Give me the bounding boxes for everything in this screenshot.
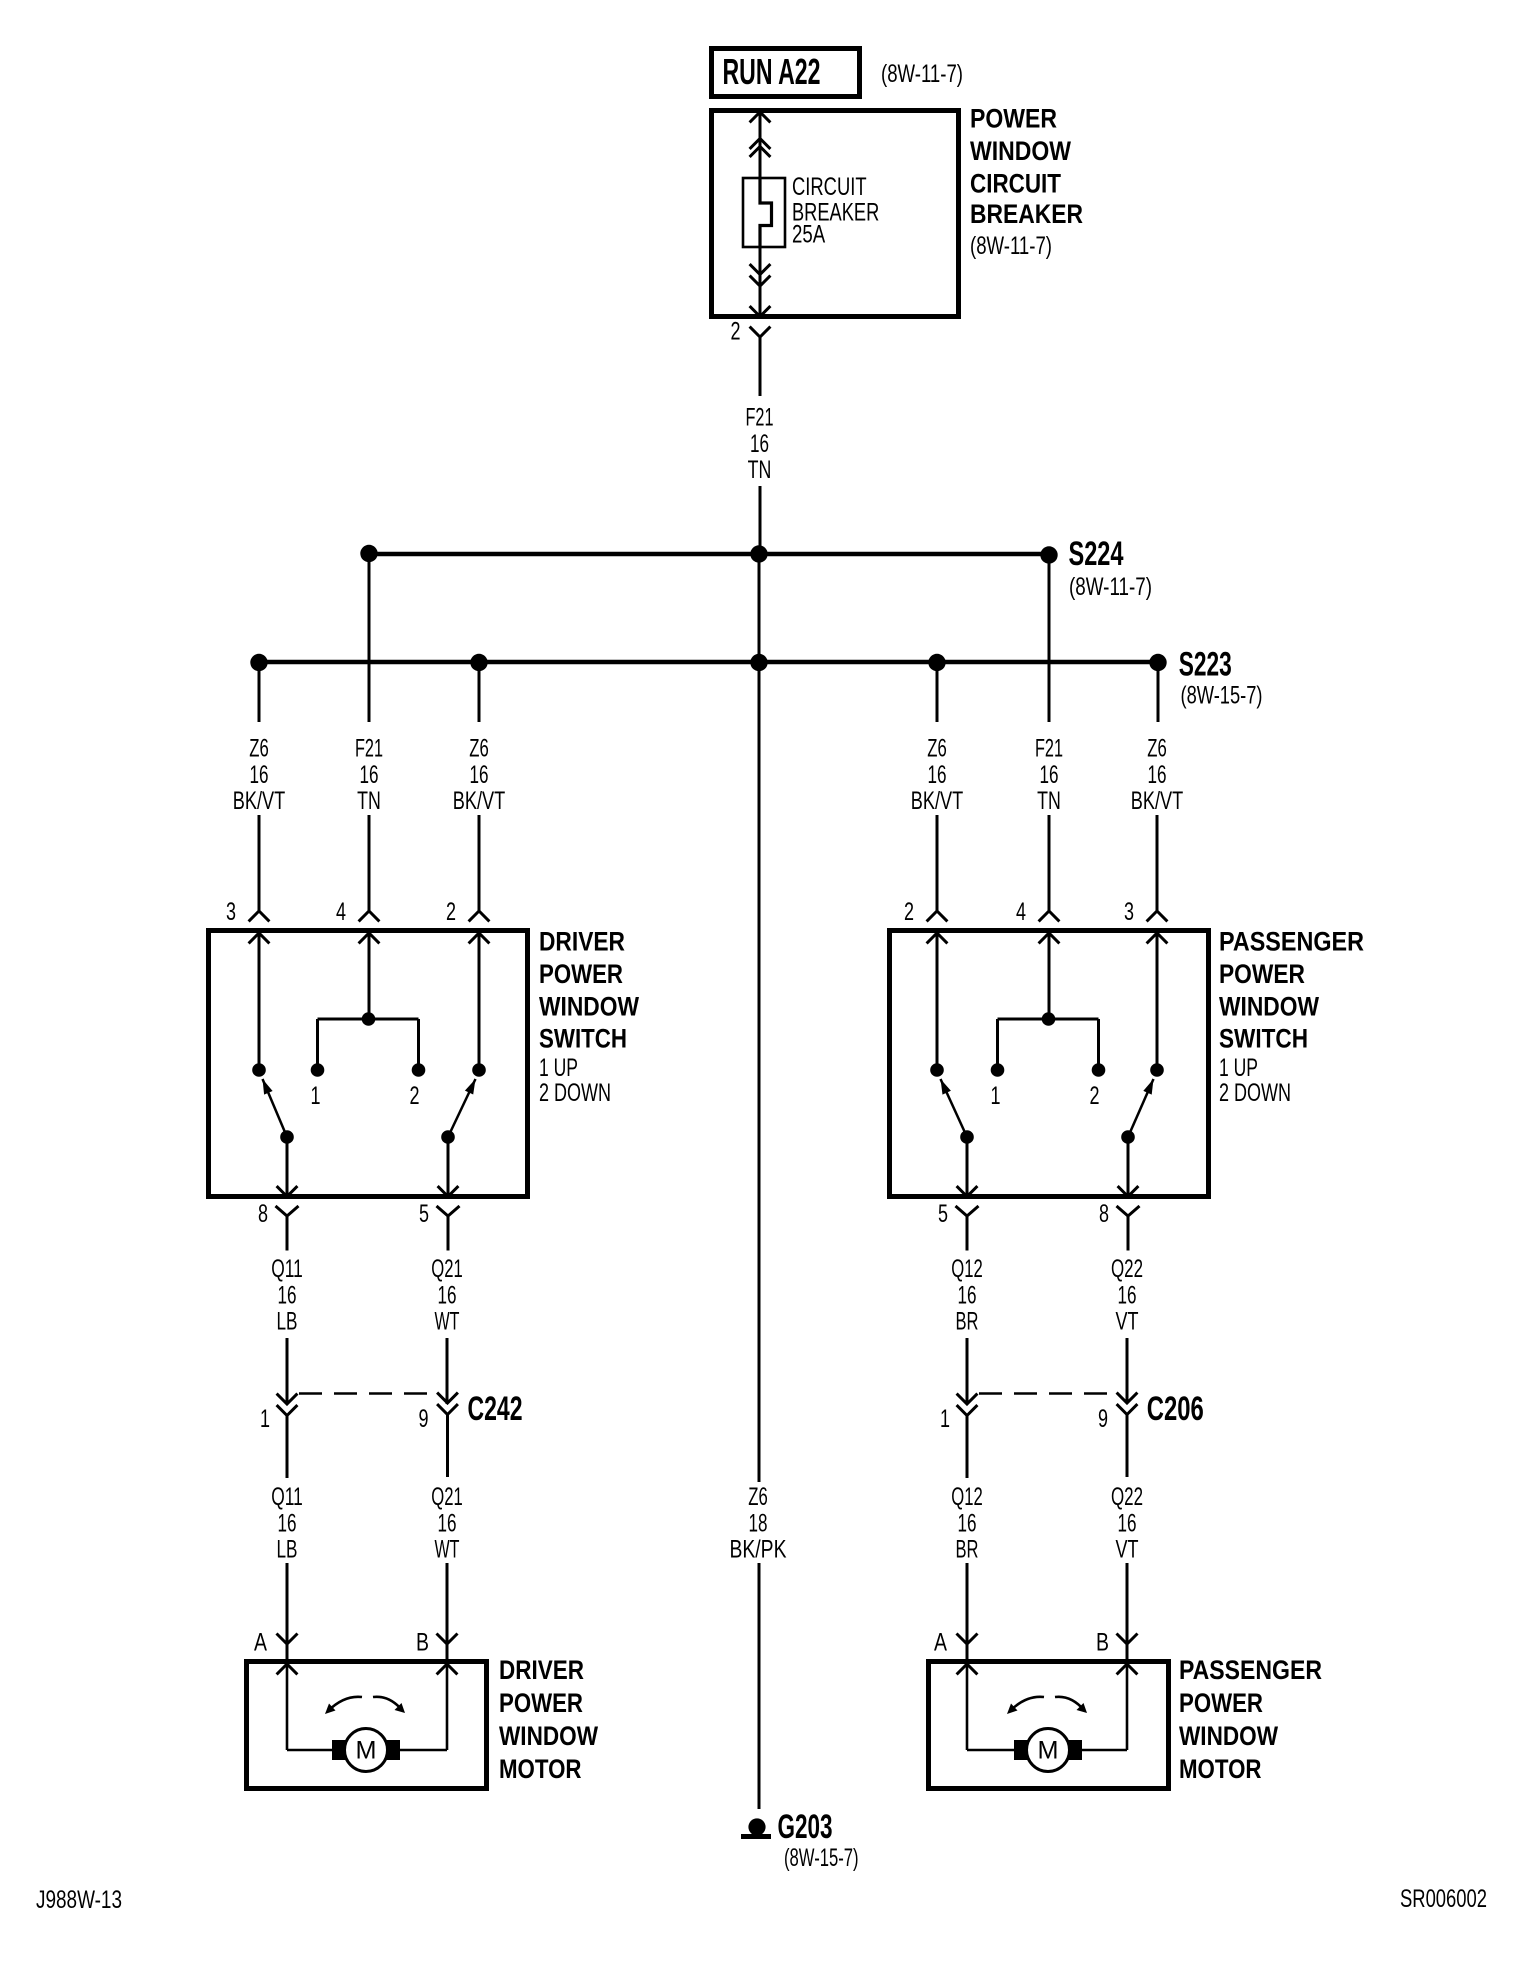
wire: S224 center to S223 center: [758, 554, 761, 662]
svg-text:CIRCUIT: CIRCUIT: [792, 173, 867, 201]
motor name text: [1179, 1655, 1322, 1784]
wire Z6 label (passenger pin 2 column): [911, 735, 964, 816]
svg-text:16: 16: [438, 1281, 457, 1309]
svg-text:16: 16: [1118, 1281, 1137, 1309]
splice bus S223: [259, 660, 1158, 665]
motor rotation arrows: [325, 1697, 405, 1714]
wire Q11 label (lower): [271, 1483, 303, 1564]
wire Q22 label (lower): [1111, 1483, 1143, 1564]
wire + pin B connector (passenger motor): [1096, 1563, 1138, 1661]
wire into switch at x=1049: [1039, 815, 1060, 921]
svg-text:PASSENGER: PASSENGER: [1179, 1655, 1322, 1685]
svg-text:TN: TN: [748, 456, 772, 484]
svg-text:BREAKER: BREAKER: [970, 199, 1083, 229]
drawing number SR006002: [1400, 1885, 1487, 1913]
svg-text:(8W-15-7): (8W-15-7): [1181, 682, 1263, 710]
svg-text:4: 4: [336, 898, 346, 926]
svg-text:F21: F21: [355, 735, 383, 763]
wire: B to motor: [400, 1664, 447, 1750]
wire inside: left pin to contact: [936, 933, 939, 1070]
svg-text:9: 9: [419, 1405, 429, 1433]
wire inside: center pin to junction: [368, 933, 371, 1019]
svg-text:2: 2: [904, 898, 914, 926]
svg-text:3: 3: [1124, 898, 1134, 926]
svg-text:16: 16: [1148, 761, 1167, 789]
switch box outline: [209, 931, 528, 1197]
driver switch pin 5 connector: [419, 1200, 460, 1251]
driver switch pin 8 connector: [258, 1200, 299, 1251]
svg-text:M: M: [1038, 1737, 1059, 1765]
wire + pin A connector (driver motor): [254, 1563, 298, 1661]
switch box outline: [890, 931, 1209, 1197]
junction dot S224 center: [750, 545, 767, 562]
wire into switch at x=259: [249, 815, 270, 921]
wire: S223 center down (Z6 to ground), upper part: [758, 662, 761, 1482]
svg-text:WINDOW: WINDOW: [499, 1721, 598, 1751]
svg-text:1 UP: 1 UP: [1219, 1054, 1258, 1082]
svg-text:BK/VT: BK/VT: [1131, 787, 1184, 815]
ground G203 symbol: [741, 1818, 771, 1836]
svg-text:POWER: POWER: [499, 1688, 583, 1718]
driver switch pin 2: [446, 898, 489, 943]
svg-text:16: 16: [438, 1509, 457, 1537]
svg-text:(8W-11-7): (8W-11-7): [970, 232, 1052, 260]
svg-text:BK/VT: BK/VT: [233, 787, 286, 815]
contact labels 1 / 2: [311, 1082, 420, 1110]
svg-text:25A: 25A: [792, 221, 825, 249]
svg-text:9: 9: [1098, 1405, 1108, 1433]
switch arm left (wiper): [263, 1079, 288, 1137]
wire: S224 to passenger switch pin 4 (upper): [1048, 555, 1051, 722]
switch common bar: [318, 1019, 419, 1070]
wire: B to motor: [1082, 1664, 1127, 1750]
svg-text:C206: C206: [1147, 1390, 1204, 1428]
wire: right wiper to box bottom: [1118, 1137, 1139, 1197]
passenger switch pin 2: [904, 898, 947, 943]
svg-text:2 DOWN: 2 DOWN: [1219, 1079, 1291, 1107]
svg-text:Q12: Q12: [951, 1255, 983, 1283]
svg-text:DRIVER: DRIVER: [539, 927, 625, 957]
wire: F21 down to S224 splice: [759, 486, 762, 554]
svg-text:Z6: Z6: [249, 735, 269, 763]
junction dot S224 left: [360, 545, 377, 562]
node RUN A22 feed box: [712, 49, 860, 97]
svg-text:Q11: Q11: [271, 1483, 303, 1511]
wire into switch at x=479: [469, 815, 490, 921]
svg-text:Z6: Z6: [469, 735, 489, 763]
svg-text:2: 2: [410, 1082, 420, 1110]
contact dot 1: [991, 1063, 1005, 1077]
svg-text:SWITCH: SWITCH: [1219, 1024, 1308, 1054]
svg-text:WINDOW: WINDOW: [539, 992, 639, 1022]
wiper dot right: [441, 1130, 455, 1144]
svg-text:B: B: [1096, 1629, 1109, 1657]
svg-text:5: 5: [938, 1200, 948, 1228]
junction dot center: [362, 1012, 376, 1026]
wire Z6 18 BK/PK label: [730, 1483, 787, 1564]
svg-text:16: 16: [750, 430, 769, 458]
passenger switch pin 8 connector: [1099, 1200, 1140, 1251]
svg-text:WT: WT: [435, 1308, 460, 1336]
svg-text:G203: G203: [778, 1808, 833, 1846]
pin arrow B inside motor box: [1117, 1664, 1138, 1674]
wire inside: right pin to contact: [1156, 933, 1159, 1070]
svg-text:2: 2: [446, 898, 456, 926]
svg-text:WT: WT: [435, 1536, 460, 1564]
contact dot left outer: [930, 1063, 944, 1077]
svg-text:8: 8: [1099, 1200, 1109, 1228]
connector C242 right half: [437, 1393, 458, 1477]
svg-text:PASSENGER: PASSENGER: [1219, 927, 1364, 957]
junction dot S223 center: [750, 654, 767, 671]
circuit breaker CB element 25A: [743, 178, 785, 247]
svg-text:WINDOW: WINDOW: [970, 136, 1071, 166]
svg-text:8: 8: [258, 1200, 268, 1228]
wire F21 label (passenger pin 4 column): [1035, 735, 1063, 816]
svg-text:Z6: Z6: [927, 735, 947, 763]
wire: breaker input from RUN A22: [750, 110, 771, 178]
wire Q22 label (upper): [1111, 1255, 1143, 1336]
svg-text:2 DOWN: 2 DOWN: [539, 1079, 611, 1107]
RUN A22 reference (8W-11-7): [881, 60, 963, 88]
wire Q21 label (lower): [431, 1483, 463, 1564]
svg-text:16: 16: [958, 1281, 977, 1309]
svg-text:Q21: Q21: [431, 1483, 463, 1511]
svg-text:16: 16: [1040, 761, 1059, 789]
passenger switch pin 4: [1016, 898, 1059, 943]
contact dot left outer: [252, 1063, 266, 1077]
switch name text: [1219, 927, 1364, 1107]
wire Z6 label (driver pin 2 column): [453, 735, 506, 816]
pin arrow A inside motor box: [957, 1664, 978, 1674]
svg-text:SR006002: SR006002: [1400, 1885, 1487, 1913]
svg-text:RUN A22: RUN A22: [723, 51, 821, 92]
switch common bar: [998, 1019, 1099, 1070]
switch arm right (wiper): [448, 1079, 476, 1137]
driver switch pin 3: [226, 898, 269, 943]
svg-text:MOTOR: MOTOR: [499, 1754, 582, 1784]
wire Q21 label (upper): [431, 1255, 463, 1336]
svg-text:16: 16: [250, 761, 269, 789]
connector C242 dashed tie: [299, 1392, 436, 1395]
wire inside: center pin to junction: [1048, 933, 1051, 1019]
wire inside: left pin to contact: [258, 933, 261, 1070]
svg-text:POWER: POWER: [970, 103, 1057, 133]
power window circuit breaker box outline: [712, 111, 959, 317]
svg-text:1 UP: 1 UP: [539, 1054, 578, 1082]
svg-text:1: 1: [991, 1082, 1001, 1110]
wire Q12 label (upper): [951, 1255, 983, 1336]
svg-text:BR: BR: [956, 1308, 979, 1336]
pin arrow B inside motor box: [437, 1664, 458, 1674]
connector C206 pin labels: [940, 1405, 1108, 1433]
svg-text:Q22: Q22: [1111, 1483, 1143, 1511]
svg-text:1: 1: [311, 1082, 321, 1110]
svg-text:TN: TN: [357, 787, 381, 815]
wire stub: S223 to driver Z6 left: [258, 662, 261, 722]
wire: S224 to driver switch pin 4 (upper): [368, 554, 371, 722]
svg-text:16: 16: [470, 761, 489, 789]
wire: A to motor: [287, 1664, 332, 1750]
motor rotation arrows: [1007, 1697, 1087, 1714]
passenger switch pin 3: [1124, 898, 1167, 943]
motor M symbol: [332, 1729, 400, 1772]
svg-text:B: B: [416, 1629, 429, 1657]
wire to C242 at x=287: [286, 1338, 289, 1404]
svg-text:16: 16: [958, 1509, 977, 1537]
connector C242 pin labels: [260, 1405, 429, 1433]
wire: left wiper to box bottom: [277, 1137, 298, 1197]
svg-text:F21: F21: [1035, 735, 1063, 763]
wire to C242 at x=447: [446, 1338, 449, 1404]
svg-text:POWER: POWER: [539, 959, 623, 989]
sheet number J988W-13: [36, 1886, 122, 1914]
svg-text:F21: F21: [746, 404, 774, 432]
contact dot 1: [311, 1063, 325, 1077]
svg-text:CIRCUIT: CIRCUIT: [970, 168, 1061, 198]
svg-text:A: A: [934, 1629, 947, 1657]
wire Q11 label (upper): [271, 1255, 303, 1336]
switch arm left (wiper): [941, 1079, 968, 1137]
connector chevrons (in-box splice, down): [750, 264, 771, 286]
wire to C206 at x=1127: [1126, 1338, 1129, 1403]
driver switch pin 4: [336, 898, 379, 943]
wiper dot left: [960, 1130, 974, 1144]
splice label S223: [1179, 646, 1263, 710]
svg-text:VT: VT: [1116, 1308, 1139, 1336]
svg-text:S223: S223: [1179, 646, 1232, 684]
svg-text:BK/VT: BK/VT: [453, 787, 506, 815]
connector chevrons (in-box splice, up): [750, 139, 771, 157]
wire + pin A connector (passenger motor): [934, 1563, 978, 1661]
junction dot S224 right (S224): [1040, 546, 1057, 563]
wire into switch at x=369: [359, 815, 380, 921]
switch name text: [539, 927, 639, 1107]
svg-text:Z6: Z6: [1147, 735, 1167, 763]
connector C242 left half: [277, 1394, 298, 1478]
svg-text:LB: LB: [277, 1308, 298, 1336]
svg-text:Q22: Q22: [1111, 1255, 1143, 1283]
svg-text:16: 16: [1118, 1509, 1137, 1537]
contact dot 2: [1092, 1063, 1106, 1077]
svg-text:C242: C242: [468, 1390, 523, 1428]
svg-text:1: 1: [940, 1405, 950, 1433]
wire inside: right pin to contact: [478, 933, 481, 1070]
svg-text:MOTOR: MOTOR: [1179, 1754, 1262, 1784]
circuit breaker value label CIRCUIT BREAKER 25A: [792, 173, 879, 249]
motor name text: [499, 1655, 598, 1784]
svg-text:WINDOW: WINDOW: [1179, 1721, 1278, 1751]
svg-text:4: 4: [1016, 898, 1026, 926]
svg-text:16: 16: [360, 761, 379, 789]
svg-text:5: 5: [419, 1200, 429, 1228]
svg-text:POWER: POWER: [1179, 1688, 1263, 1718]
svg-text:J988W-13: J988W-13: [36, 1886, 122, 1914]
contact dot right outer: [472, 1063, 486, 1077]
svg-text:(8W-11-7): (8W-11-7): [881, 60, 963, 88]
svg-text:(8W-15-7): (8W-15-7): [784, 1844, 859, 1872]
svg-text:(8W-11-7): (8W-11-7): [1069, 573, 1152, 601]
svg-text:M: M: [356, 1737, 377, 1765]
pin arrow at breaker box bottom: [750, 306, 771, 316]
ground label G203: [778, 1808, 859, 1872]
svg-text:2: 2: [731, 318, 741, 346]
svg-text:VT: VT: [1116, 1536, 1139, 1564]
wire stub: S223 to passenger Z6 left: [936, 662, 939, 722]
wire Z6 label (passenger pin 3 column): [1131, 735, 1184, 816]
pin arrow A inside motor box: [277, 1664, 298, 1674]
svg-text:BR: BR: [956, 1536, 979, 1564]
svg-text:A: A: [254, 1629, 267, 1657]
svg-text:Q11: Q11: [271, 1255, 303, 1283]
svg-text:16: 16: [278, 1281, 297, 1309]
svg-text:BK/VT: BK/VT: [911, 787, 964, 815]
junction dot S223 mid left: [470, 654, 487, 671]
wire into switch at x=937: [927, 815, 948, 921]
contact dot 2: [412, 1063, 426, 1077]
svg-text:1: 1: [260, 1405, 270, 1433]
wire Q12 label (lower): [951, 1483, 983, 1564]
wire: right wiper to box bottom: [438, 1137, 459, 1197]
wire: breaker output to pin 2: [759, 247, 762, 314]
svg-text:16: 16: [278, 1509, 297, 1537]
svg-text:TN: TN: [1037, 787, 1061, 815]
svg-text:BK/PK: BK/PK: [730, 1536, 787, 1564]
connector C206 name: [1147, 1390, 1204, 1428]
splice label S224: [1069, 535, 1153, 601]
wire stub: S223 to driver Z6 right: [478, 662, 481, 722]
junction dot S223 far left: [250, 654, 267, 671]
wiper dot right: [1121, 1130, 1135, 1144]
svg-text:LB: LB: [277, 1536, 298, 1564]
wire: Z6 label to ground G203: [758, 1563, 761, 1809]
connector C206 left half: [957, 1394, 978, 1478]
svg-text:2: 2: [1090, 1082, 1100, 1110]
svg-text:WINDOW: WINDOW: [1219, 992, 1319, 1022]
passenger switch pin 5 connector: [938, 1200, 979, 1251]
wire stub: S223 to passenger Z6 right: [1157, 662, 1160, 722]
svg-text:Z6: Z6: [748, 1483, 768, 1511]
junction dot S223 mid right: [928, 654, 945, 671]
wire: A to motor: [967, 1664, 1014, 1750]
splice bus S224: [369, 552, 1049, 557]
wire F21 label (driver pin 4 column): [355, 735, 383, 816]
wire + pin B connector (driver motor): [416, 1563, 458, 1661]
contact labels 1 / 2: [991, 1082, 1100, 1110]
contact dot right outer: [1150, 1063, 1164, 1077]
pin 2 connector of breaker: [731, 318, 771, 397]
svg-text:SWITCH: SWITCH: [539, 1024, 627, 1054]
svg-text:3: 3: [226, 898, 236, 926]
connector C206 dashed tie: [979, 1392, 1115, 1395]
motor box outline: [247, 1662, 487, 1789]
motor M symbol: [1014, 1729, 1082, 1772]
wire F21 label (breaker to S224): [746, 404, 774, 485]
svg-text:18: 18: [749, 1509, 768, 1537]
svg-text:S224: S224: [1069, 535, 1124, 573]
connector C242 name: [468, 1390, 523, 1428]
svg-text:POWER: POWER: [1219, 959, 1305, 989]
junction dot S223 far right (S223): [1149, 654, 1166, 671]
motor box outline: [929, 1662, 1169, 1789]
svg-text:Q12: Q12: [951, 1483, 983, 1511]
wire into switch at x=1157: [1147, 815, 1168, 921]
circuit breaker label text: [970, 103, 1083, 260]
svg-text:Q21: Q21: [431, 1255, 463, 1283]
svg-text:16: 16: [928, 761, 947, 789]
junction dot center: [1042, 1012, 1056, 1026]
wire to C206 at x=967: [966, 1338, 969, 1403]
connector C206 right half: [1117, 1393, 1138, 1477]
switch arm right (wiper): [1128, 1079, 1154, 1137]
svg-text:DRIVER: DRIVER: [499, 1655, 584, 1685]
wiper dot left: [280, 1130, 294, 1144]
wire: left wiper to box bottom: [957, 1137, 978, 1197]
wire Z6 label (driver pin 3 column): [233, 735, 286, 816]
